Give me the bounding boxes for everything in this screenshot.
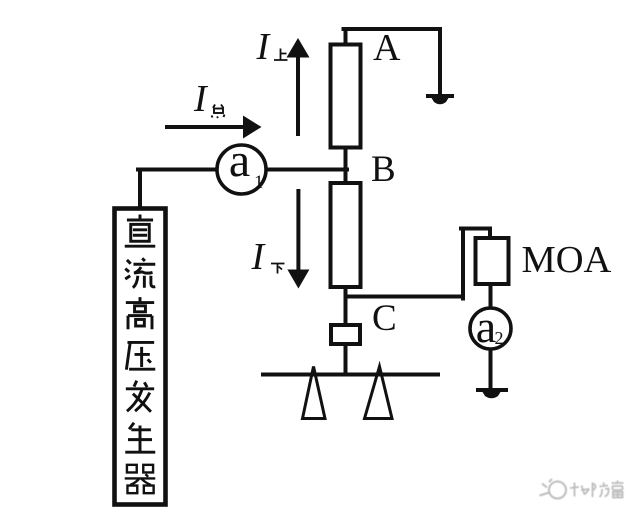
- ammeter a2: [470, 308, 511, 349]
- arrow I-up: [287, 38, 310, 136]
- watermark char lei (lightning): [612, 481, 624, 498]
- wire: bottom earth rail: [263, 373, 438, 377]
- arrow I-down: [287, 189, 309, 289]
- wire: generator top vertical: [138, 170, 142, 208]
- resistor upper (A-B divider arm): [331, 45, 361, 148]
- generator text char liu (flow): [125, 258, 155, 287]
- wire: R-upper top lead: [344, 29, 348, 44]
- wire: MOA branch vertical up: [461, 229, 465, 299]
- earth electrode triangle right: [365, 367, 393, 419]
- svg-text:2: 2: [495, 328, 504, 348]
- svg-text:A: A: [373, 27, 401, 69]
- wire: vertical drop to top ground: [438, 29, 442, 94]
- label I-total subscript zong: [212, 105, 225, 119]
- earth electrode triangle left: [303, 367, 326, 419]
- ground top-right: [426, 96, 454, 104]
- watermark char fang (protect): [593, 483, 609, 498]
- ground bottom-right (below a2): [476, 390, 508, 398]
- svg-text:I: I: [193, 78, 209, 120]
- MOA arrester box: [476, 238, 509, 284]
- box C (sampling element): [331, 325, 360, 344]
- wire: top horizontal run to ground: [344, 27, 441, 31]
- wire: ammeter a2 to bottom ground: [489, 348, 493, 388]
- label I-up subscript shang: [274, 49, 288, 61]
- generator text char qi (device): [125, 465, 156, 493]
- svg-text:C: C: [372, 298, 397, 339]
- svg-text:a: a: [229, 134, 250, 187]
- svg-text:MOA: MOA: [522, 239, 612, 281]
- wire: MOA bottom lead to ammeter a2: [489, 285, 493, 309]
- svg-text:B: B: [371, 149, 396, 190]
- generator text char sheng (produce): [125, 423, 155, 452]
- generator text char zhi (direct): [125, 215, 156, 247]
- generator text char ya (voltage/pressure): [126, 342, 155, 369]
- wire: R-lower bottom lead to box C: [344, 287, 348, 325]
- watermark char zhao (find): [570, 483, 590, 497]
- svg-text:I: I: [256, 26, 272, 68]
- wire: MOA top lead: [488, 229, 492, 239]
- svg-text:1: 1: [254, 172, 264, 193]
- generator text char fa (generate): [126, 381, 154, 412]
- watermark logo mark: [540, 479, 567, 499]
- resistor lower (B-C divider arm): [331, 183, 361, 287]
- label I-down subscript xia: [271, 264, 285, 274]
- wire: ammeter a1 to node B: [266, 168, 347, 172]
- wire: horizontal run from node C junction to MOA branch: [346, 295, 464, 299]
- wire: generator to ammeter a1: [138, 168, 218, 172]
- svg-text:I: I: [251, 236, 267, 278]
- wire: MOA branch horizontal top: [461, 227, 490, 231]
- svg-text:a: a: [476, 301, 496, 352]
- generator box: [115, 209, 166, 505]
- wire: box C bottom lead: [344, 345, 348, 375]
- wire: node B vertical between R-upper and R-lower: [344, 148, 348, 183]
- arrow I-total (right): [165, 116, 262, 139]
- ammeter a1: [217, 145, 266, 194]
- generator text char gao (high): [126, 297, 154, 329]
